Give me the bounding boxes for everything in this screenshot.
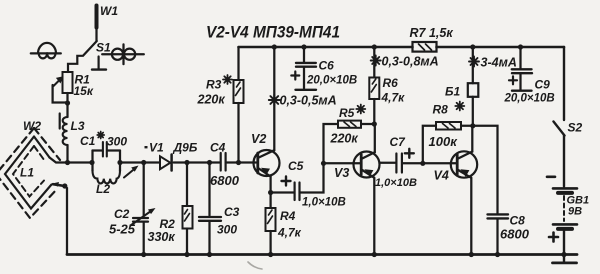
svg-text:R3: R3 bbox=[206, 78, 222, 92]
resistor R6 4,7к bbox=[369, 47, 405, 124]
measurement point: 0,3-0,8мА bbox=[371, 55, 439, 69]
svg-text:C9: C9 bbox=[535, 78, 551, 92]
svg-text:R2: R2 bbox=[160, 217, 176, 231]
svg-text:C7: C7 bbox=[390, 135, 407, 149]
node: V4 collector junction bbox=[470, 123, 475, 128]
measurement point: 3-4мА bbox=[469, 56, 517, 70]
loop antenna W2 / coil L1 bbox=[0, 119, 60, 218]
node: R3 bottom / V2 base bbox=[236, 160, 241, 165]
battery GB1 9В bbox=[547, 177, 589, 255]
stray pencil mark bbox=[248, 262, 262, 269]
capacitor C8 6800 bbox=[473, 126, 530, 255]
node: V3 collector / R5 / R6 junction bbox=[372, 121, 377, 126]
switch S2 bbox=[554, 121, 583, 187]
capacitor C5 1,0x10В bbox=[271, 159, 346, 209]
svg-text:V2: V2 bbox=[251, 132, 266, 146]
resistor R2 330к bbox=[148, 163, 193, 255]
wire: C3 node to C4 bbox=[187, 161, 220, 163]
svg-text:6800: 6800 bbox=[500, 227, 530, 242]
svg-text:0,3-0,5мА: 0,3-0,5мА bbox=[280, 94, 337, 108]
node: C2 bottom bbox=[141, 252, 146, 257]
svg-text:S1: S1 bbox=[96, 41, 111, 55]
socket X1 bbox=[31, 43, 61, 59]
node: B1 top on rail bbox=[470, 44, 475, 49]
capacitor C2 5-25 (trimmer) bbox=[109, 163, 156, 255]
svg-text:100к: 100к bbox=[429, 134, 459, 149]
diode V1 Д9Б bbox=[145, 141, 198, 171]
svg-text:3-4мА: 3-4мА bbox=[481, 56, 517, 70]
node: C3 bottom bbox=[207, 252, 212, 257]
svg-text:15к: 15к bbox=[74, 84, 94, 98]
resistor R7 1,5к bbox=[410, 26, 454, 52]
measurement point: 0,3-0,5мА bbox=[269, 94, 337, 108]
svg-text:C6: C6 bbox=[319, 59, 335, 73]
node: battery plus on rail bbox=[561, 252, 566, 257]
node: tank right bbox=[117, 160, 122, 165]
top rail (negative supply) bbox=[239, 46, 565, 49]
transistor V3 bbox=[324, 124, 380, 255]
node: R2 bottom bbox=[184, 252, 189, 257]
node: R8 / V4 base junction bbox=[420, 161, 425, 166]
switch S1 bbox=[68, 41, 111, 73]
svg-text:20,0×10В: 20,0×10В bbox=[306, 75, 357, 87]
resistor R4 4,7к bbox=[266, 193, 302, 255]
svg-text:300: 300 bbox=[107, 135, 127, 149]
node: R4 bottom bbox=[268, 252, 273, 257]
node: V4 emitter bottom bbox=[469, 252, 474, 257]
resistor R3 220к bbox=[197, 47, 244, 163]
svg-text:C5: C5 bbox=[288, 159, 304, 173]
svg-text:220к: 220к bbox=[197, 93, 226, 107]
svg-text:330к: 330к bbox=[148, 230, 176, 244]
svg-text:5-25: 5-25 bbox=[109, 222, 136, 237]
resistor R8 100к bbox=[423, 102, 473, 164]
capacitor C3 300 bbox=[199, 163, 240, 255]
earphone B1 bbox=[445, 47, 478, 126]
svg-text:L3: L3 bbox=[71, 119, 85, 133]
wire: loop upper lead to node A bbox=[50, 158, 68, 163]
tank circuit: capacitor C1 300 and inductor L2 bbox=[80, 132, 127, 197]
svg-text:R5: R5 bbox=[339, 106, 355, 120]
svg-text:9В: 9В bbox=[568, 206, 582, 218]
svg-text:Б1: Б1 bbox=[445, 85, 460, 99]
node: V3 base junction bbox=[321, 161, 326, 166]
svg-text:L2: L2 bbox=[96, 182, 110, 196]
resistor R1 15к (rheostat) bbox=[53, 72, 94, 103]
node: C9 top on rail bbox=[518, 44, 523, 49]
svg-text:C2: C2 bbox=[114, 207, 130, 221]
svg-text:220к: 220к bbox=[330, 132, 359, 146]
svg-text:1,0×10В: 1,0×10В bbox=[302, 197, 346, 209]
node: C6 top on rail bbox=[301, 44, 306, 49]
svg-text:V3: V3 bbox=[334, 166, 349, 180]
capacitor C7 1,0x10В bbox=[375, 135, 456, 189]
wire: tank to diode V1 bbox=[120, 161, 160, 163]
svg-text:C1: C1 bbox=[80, 134, 96, 148]
node: V2 emitter junction bbox=[268, 190, 273, 195]
resistor R5 220к bbox=[324, 105, 375, 164]
svg-text:1,0×10В: 1,0×10В bbox=[375, 177, 417, 189]
transistor V2 bbox=[251, 47, 280, 193]
wire: rail right corner down bbox=[563, 47, 565, 120]
svg-text:6800: 6800 bbox=[210, 173, 240, 188]
arrow: L2 tuning adjustment bbox=[124, 166, 139, 178]
inductor L3 bbox=[60, 103, 85, 163]
svg-text:S2: S2 bbox=[568, 121, 583, 135]
antenna W1 bbox=[97, 4, 119, 41]
svg-text:R6: R6 bbox=[383, 76, 399, 90]
svg-text:4,7к: 4,7к bbox=[277, 226, 302, 240]
capacitor C9 20,0x10В bbox=[504, 47, 555, 105]
wire: node A to tank bbox=[68, 161, 93, 163]
svg-text:R7 1,5к: R7 1,5к bbox=[410, 26, 454, 40]
svg-text:20,0×10В: 20,0×10В bbox=[504, 93, 555, 105]
svg-text:C4: C4 bbox=[210, 141, 226, 155]
node: C2 top bbox=[141, 160, 146, 165]
bottom rail (positive supply) bbox=[67, 253, 577, 256]
svg-text:Д9Б: Д9Б bbox=[173, 141, 198, 155]
svg-text:300: 300 bbox=[217, 223, 237, 237]
node: R2 top bbox=[184, 160, 189, 165]
svg-text:R4: R4 bbox=[280, 209, 296, 223]
node: tank left bbox=[89, 160, 94, 165]
transistor V4 bbox=[434, 126, 478, 255]
plug X2 bbox=[102, 44, 144, 64]
svg-text:0,3-0,8мА: 0,3-0,8мА bbox=[382, 55, 439, 69]
node: V3 emitter bottom bbox=[372, 252, 377, 257]
svg-text:V1: V1 bbox=[149, 141, 164, 155]
svg-text:C3: C3 bbox=[224, 205, 240, 219]
node: V2 collector on top rail bbox=[272, 44, 277, 49]
wire: loop lower lead with tap arrow, down to bottom rail bbox=[51, 182, 67, 255]
svg-text:V4: V4 bbox=[434, 169, 449, 183]
svg-text:V2-V4 МП39-МП41: V2-V4 МП39-МП41 bbox=[206, 24, 340, 42]
svg-text:C8: C8 bbox=[510, 214, 526, 228]
node: R1 bottom junction bbox=[65, 100, 70, 105]
svg-text:L1: L1 bbox=[20, 166, 34, 180]
node: C3 top bbox=[207, 160, 212, 165]
node: C8 bottom bbox=[495, 252, 500, 257]
capacitor C4 6800 bbox=[210, 141, 256, 189]
ground bbox=[553, 256, 577, 263]
node: R6 top on rail bbox=[372, 44, 377, 49]
svg-text:R8: R8 bbox=[433, 103, 449, 117]
svg-text:W1: W1 bbox=[100, 4, 118, 18]
capacitor C6 20,0x10В bbox=[291, 47, 357, 90]
svg-text:4,7к: 4,7к bbox=[381, 91, 406, 105]
node A junction dot bbox=[65, 160, 70, 165]
